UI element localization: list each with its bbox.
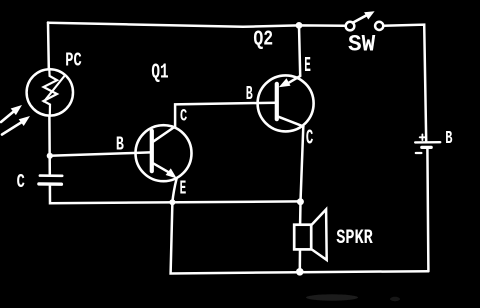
svg-text:B: B xyxy=(246,83,253,105)
svg-text:SPKR: SPKR xyxy=(336,227,373,250)
svg-text:C: C xyxy=(17,171,25,193)
svg-text:E: E xyxy=(180,177,187,199)
svg-text:Q1: Q1 xyxy=(151,61,168,85)
svg-text:C: C xyxy=(180,106,187,126)
svg-text:SW: SW xyxy=(348,31,375,57)
svg-text:PC: PC xyxy=(65,50,81,72)
svg-text:B: B xyxy=(116,134,124,156)
svg-text:Q2: Q2 xyxy=(253,28,273,52)
svg-text:C: C xyxy=(306,127,314,150)
svg-text:E: E xyxy=(304,55,311,78)
svg-text:B: B xyxy=(445,128,452,149)
